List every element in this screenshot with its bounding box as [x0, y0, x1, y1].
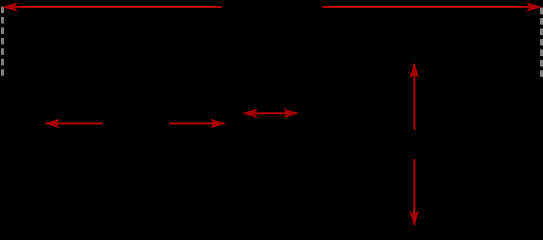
small arrowhead left: [242, 109, 258, 119]
period arrowhead left: [2, 2, 18, 12]
period dimension line, right segment: [323, 6, 541, 8]
amplitude dimension, lower segment: [413, 159, 415, 225]
amplitude dimension, upper segment: [413, 64, 415, 130]
period arrowhead right: [526, 2, 542, 12]
pulse-width arrowhead right: [210, 119, 226, 129]
amplitude arrowhead down: [410, 211, 420, 227]
small arrowhead right: [283, 109, 299, 119]
dashed boundary line left: [1, 7, 4, 77]
pulse-width dimension, right part: [170, 123, 225, 125]
period dimension line, left segment: [4, 6, 222, 8]
small double-headed dimension arrow: [244, 112, 297, 114]
amplitude arrowhead up: [410, 63, 420, 79]
dashed boundary line right: [540, 8, 543, 79]
pulse-width arrowhead left: [44, 119, 60, 129]
pulse-width dimension, left part: [46, 123, 103, 125]
